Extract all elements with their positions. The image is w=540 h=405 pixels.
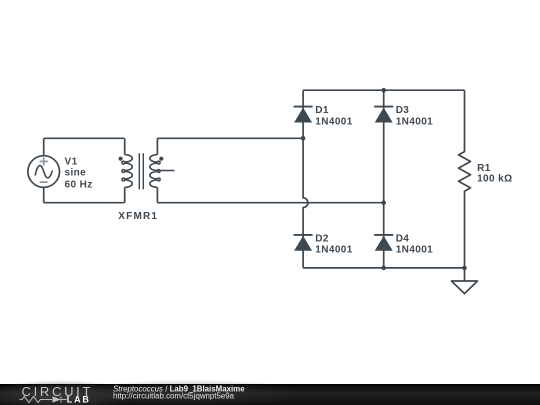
svg-text:R1: R1 [477, 163, 491, 174]
svg-text:D1: D1 [315, 105, 329, 116]
svg-text:D3: D3 [396, 105, 410, 116]
svg-text:D4: D4 [396, 234, 410, 245]
svg-text:1N4001: 1N4001 [396, 116, 433, 127]
svg-text:1N4001: 1N4001 [315, 116, 352, 127]
svg-text:60 Hz: 60 Hz [65, 180, 93, 191]
svg-text:100 kΩ: 100 kΩ [477, 173, 512, 184]
svg-text:V1: V1 [65, 156, 78, 167]
svg-text:D2: D2 [315, 234, 329, 245]
svg-text:http://circuitlab.com/ct5jqwnp: http://circuitlab.com/ct5jqwnpt5e9a [113, 392, 235, 401]
svg-text:1N4001: 1N4001 [396, 245, 433, 256]
svg-text:XFMR1: XFMR1 [118, 211, 158, 222]
svg-text:sine: sine [65, 168, 87, 179]
svg-text:1N4001: 1N4001 [315, 245, 352, 256]
svg-text:LAB: LAB [67, 394, 91, 404]
